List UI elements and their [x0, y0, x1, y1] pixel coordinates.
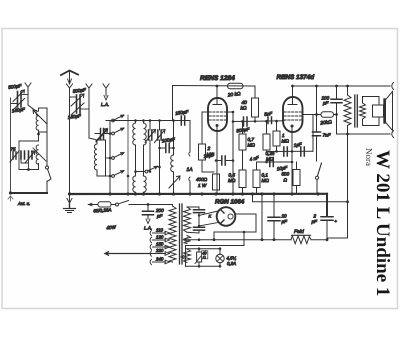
switch contact S4 [97, 171, 124, 178]
transformer primary [169, 205, 176, 263]
svg-text:MΩ: MΩ [228, 178, 236, 183]
V3 output loop [214, 214, 256, 240]
svg-text:MΩ: MΩ [248, 143, 256, 148]
svg-text:RENS 1374d: RENS 1374d [277, 74, 316, 81]
capacitor 200pF [143, 211, 154, 215]
resistor 0,1MΩ [253, 162, 260, 194]
switch gang bus [127, 115, 129, 194]
svg-text:40: 40 [242, 100, 248, 106]
terminal mark [8, 196, 13, 201]
capacitor A2 [21, 151, 25, 159]
trimmer capacitor T1 [149, 130, 152, 140]
tube U1 grids [209, 112, 226, 120]
svg-text:220: 220 [155, 248, 164, 253]
bottom wire antenna A [11, 192, 48, 194]
node A2 [27, 168, 30, 171]
switch bus left [109, 121, 111, 195]
antenna terminal B2 [86, 84, 92, 95]
trimmer arrow reaction [169, 176, 180, 188]
coil B [89, 138, 106, 176]
tone branch 7nF [316, 86, 318, 132]
svg-text:2: 2 [207, 146, 211, 152]
speaker terminal top [392, 83, 394, 90]
tube U2 envelope [283, 97, 303, 132]
antenna terminal A [25, 83, 31, 92]
svg-text:MΩ: MΩ [282, 139, 290, 144]
tube U2 anode [288, 86, 297, 105]
coil L1 primary [133, 121, 136, 177]
capacitor 20µF cathode [216, 160, 233, 162]
coil L2 primary [133, 176, 136, 194]
coupling line [233, 120, 284, 123]
ground [64, 196, 76, 213]
trimmer capacitor 500µF [18, 92, 22, 99]
capacitor 2µF [326, 221, 328, 240]
switch contact S5 [136, 166, 160, 173]
svg-text:Ω: Ω [203, 255, 206, 259]
capacitor 300µF [244, 117, 248, 126]
svg-text:MΩ: MΩ [262, 178, 270, 183]
mains switch [116, 201, 173, 207]
filament bottom line [186, 265, 221, 267]
top rail left [173, 85, 256, 88]
filament top line [186, 248, 221, 250]
resistor 20kΩ right [321, 112, 334, 118]
variable coil A2 [33, 145, 46, 164]
mains lead 2 [105, 252, 152, 256]
tube U1 cathode [216, 124, 219, 127]
field coil line [184, 238, 292, 242]
capacitor 5nF [268, 117, 272, 124]
tube U2 cathode [291, 125, 294, 128]
svg-text:1A: 1A [187, 167, 194, 173]
grid line U1 [202, 112, 208, 144]
svg-text:kΩ: kΩ [241, 106, 247, 112]
tap 110 [150, 230, 169, 236]
svg-text:0,3A: 0,3A [227, 261, 236, 266]
tap 150 [150, 244, 169, 250]
wire L1 up [312, 115, 314, 152]
fuse 65/0,26A [98, 202, 116, 207]
svg-text:4,5V,: 4,5V, [227, 256, 237, 261]
line L2 [257, 161, 293, 163]
switch contact S3 [106, 153, 125, 160]
trimmer arrow coil B [96, 130, 108, 143]
svg-text:500: 500 [282, 172, 290, 177]
wire A down [27, 92, 29, 105]
capacitor 100µF [160, 147, 174, 149]
node dots IF [134, 119, 175, 173]
capacitor 10µF [273, 194, 275, 240]
svg-text:7nF: 7nF [323, 133, 332, 138]
anode slants [199, 211, 218, 226]
tap 120 [150, 237, 169, 243]
OT core [355, 95, 358, 127]
antenna terminal L.A. [103, 84, 109, 100]
svg-text:K: K [209, 214, 212, 219]
svg-text:120: 120 [156, 235, 164, 240]
OT secondary [360, 103, 366, 119]
top line [110, 120, 190, 122]
bus corner to 2µF [326, 194, 328, 216]
capacitor 100pF [331, 99, 342, 103]
speaker bottom line [337, 133, 391, 135]
capacitor HV1 [194, 210, 205, 213]
tap 220 mains [150, 251, 169, 257]
wave switch A [46, 132, 52, 193]
bus node dots [108, 192, 319, 195]
svg-text:40W: 40W [106, 224, 117, 230]
top rail right [293, 85, 391, 87]
line L1 [267, 150, 314, 152]
capacitor L1a [284, 147, 288, 156]
V3 filament [228, 214, 233, 219]
wire B2 [80, 95, 89, 138]
resistor 40Ω [195, 249, 206, 267]
label 40Ω [202, 251, 208, 259]
svg-text:200: 200 [155, 208, 164, 213]
svg-text:240: 240 [155, 257, 164, 262]
HV secondary [184, 207, 191, 232]
heater secondary [184, 249, 191, 263]
node g2 [232, 111, 235, 114]
tone switch [315, 137, 321, 194]
capacitor 7nF [313, 132, 321, 136]
resistor 1MΩ [273, 121, 280, 151]
heater feed line [186, 232, 245, 266]
V3 anodes [221, 210, 225, 224]
heater tap arrow [181, 255, 186, 259]
node A1 [37, 133, 40, 136]
reaction coil [171, 121, 174, 195]
DC feed from bus [253, 194, 348, 202]
svg-text:0,1: 0,1 [262, 173, 269, 178]
antenna mast [61, 71, 78, 76]
fuse 1A [189, 121, 190, 195]
speaker [373, 92, 393, 131]
resistor 0,7MΩ [239, 122, 246, 171]
svg-text:Ω: Ω [284, 178, 288, 183]
speaker terminal bottom [392, 131, 394, 138]
wire left vertical [10, 98, 12, 193]
coil L1 secondary [144, 121, 147, 177]
svg-text:W 201 L Undine 1: W 201 L Undine 1 [372, 150, 393, 296]
svg-text:Feld: Feld [294, 229, 304, 235]
svg-text:10: 10 [282, 214, 288, 219]
wire B1 [70, 92, 77, 194]
trimmer capacitor B1 [77, 95, 81, 104]
grid2 line [227, 112, 233, 194]
svg-text:1: 1 [282, 133, 285, 138]
coil L2 secondary [144, 176, 147, 194]
node B [68, 192, 71, 195]
variable capacitor A3 [29, 151, 33, 159]
resistor 0,25MΩ [263, 121, 270, 151]
resistor 400Ω 1W [213, 174, 220, 190]
tube U1 envelope [208, 98, 227, 131]
svg-text:RGN 1064: RGN 1064 [215, 199, 245, 206]
tank bottom wire [19, 141, 39, 170]
rail corner to IF [172, 86, 174, 121]
wire to tank [38, 134, 40, 141]
tank circuit top wire [19, 140, 39, 142]
mid secondary [184, 236, 191, 244]
mast lead arrow [68, 72, 72, 84]
svg-text:2: 2 [313, 214, 317, 219]
svg-text:Ant. u.: Ant. u. [17, 201, 30, 206]
OT primary [344, 86, 351, 134]
svg-text:400Ω: 400Ω [196, 177, 208, 182]
trimmer capacitor T2 [158, 130, 161, 140]
capacitor L1b 1nF [301, 147, 305, 156]
switch contact S1 [106, 115, 124, 122]
trimmer capacitor B2 [77, 105, 81, 113]
mains lead 1 [89, 203, 99, 206]
right drop x347 [328, 134, 348, 238]
switch contact S2 [112, 128, 124, 135]
resistor 0,5MΩ [239, 170, 246, 194]
svg-text:150: 150 [156, 242, 164, 247]
wire bus drop x262 [261, 194, 263, 240]
speaker wires [363, 97, 380, 126]
coil A1 parallel branch [39, 108, 48, 134]
resistor 20kΩ [228, 83, 244, 89]
tube U2 grids [284, 112, 301, 120]
svg-text:L.A.: L.A. [101, 102, 109, 107]
node anode1 [216, 85, 219, 88]
trimmer capacitor 75 [13, 152, 16, 159]
svg-text:RENS 1284: RENS 1284 [200, 75, 235, 82]
svg-text:110: 110 [156, 228, 164, 233]
trimmer capacitor S2 [95, 133, 112, 135]
capacitor HV2 [194, 227, 205, 230]
capacitor 4nF [270, 158, 274, 167]
HV leads [187, 207, 199, 233]
trimmer capacitor 140µF [18, 100, 22, 107]
resistor 2MΩ [199, 144, 215, 172]
transformer core [180, 204, 183, 264]
tube V3 envelope [217, 207, 236, 226]
resistor 40kΩ [252, 86, 259, 122]
svg-text:0,5: 0,5 [229, 173, 236, 178]
capacitor 150µF [174, 120, 191, 122]
pilot lamp [216, 249, 224, 267]
main bus [70, 193, 328, 195]
svg-text:L.A.: L.A. [144, 226, 152, 231]
anode line U2 [303, 114, 337, 116]
tube U1 anode [213, 86, 222, 105]
resistor 500Ω [293, 162, 300, 194]
tap 240 [150, 259, 169, 265]
svg-text:1 W: 1 W [198, 183, 207, 188]
antenna terminal B1 [67, 84, 73, 92]
variable coil A1 [28, 105, 47, 130]
svg-text:0,7: 0,7 [248, 137, 255, 142]
